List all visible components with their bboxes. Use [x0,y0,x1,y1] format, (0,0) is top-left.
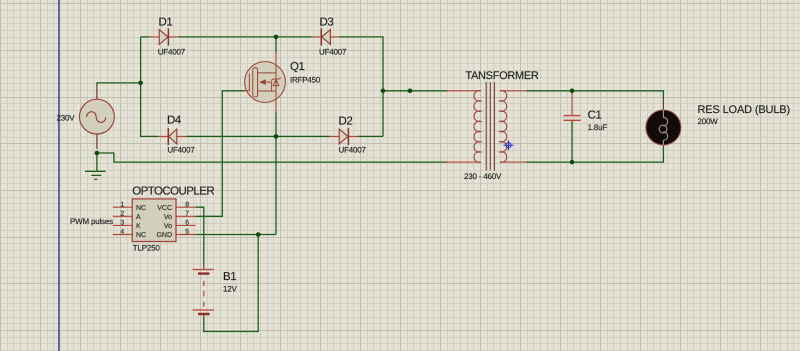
svg-text:2: 2 [120,211,124,218]
svg-text:D2: D2 [339,116,353,128]
svg-text:8: 8 [185,201,189,208]
svg-text:5: 5 [185,229,189,236]
svg-text:PWM pulses: PWM pulses [70,217,113,226]
svg-text:Vo: Vo [164,214,172,221]
svg-text:1: 1 [120,201,124,208]
svg-text:UF4007: UF4007 [319,48,347,57]
svg-text:OPTOCOUPLER: OPTOCOUPLER [132,185,214,197]
svg-text:B1: B1 [223,271,236,283]
svg-text:TLP250: TLP250 [133,244,161,253]
svg-text:Vo: Vo [164,223,172,230]
svg-text:IRFP450: IRFP450 [290,75,321,84]
svg-text:1.8uF: 1.8uF [588,123,608,132]
svg-text:D1: D1 [159,17,173,29]
svg-text:Q1: Q1 [290,61,305,73]
svg-text:NC: NC [136,205,146,212]
svg-text:UF4007: UF4007 [339,146,367,155]
svg-text:UF4007: UF4007 [167,145,195,154]
svg-text:230V: 230V [57,114,76,123]
svg-text:C1: C1 [588,110,602,122]
svg-text:3: 3 [120,220,124,227]
svg-text:A: A [136,214,141,221]
svg-text:D3: D3 [320,17,334,29]
svg-text:TANSFORMER: TANSFORMER [465,70,539,82]
svg-text:GND: GND [156,232,172,239]
svg-text:12V: 12V [223,285,237,294]
svg-text:VCC: VCC [157,205,172,212]
svg-text:RES LOAD (BULB): RES LOAD (BULB) [698,104,791,116]
svg-text:D4: D4 [167,114,182,126]
svg-text:UF4007: UF4007 [158,48,186,57]
svg-text:K: K [136,223,141,230]
svg-text:7: 7 [185,211,189,218]
svg-text:NC: NC [136,232,146,239]
svg-text:200W: 200W [698,117,719,126]
svg-text:230 - 460V: 230 - 460V [464,172,502,181]
svg-text:4: 4 [120,229,124,236]
svg-text:6: 6 [185,220,189,227]
